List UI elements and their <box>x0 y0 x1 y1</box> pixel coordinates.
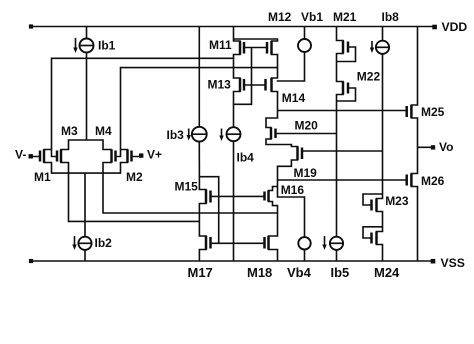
svg-text:M13: M13 <box>208 78 232 92</box>
svg-text:Ib2: Ib2 <box>95 236 113 250</box>
svg-text:M3: M3 <box>61 124 78 138</box>
svg-text:M20: M20 <box>295 119 319 133</box>
svg-text:Ib3: Ib3 <box>167 128 185 142</box>
svg-text:M18: M18 <box>247 265 272 280</box>
svg-text:M17: M17 <box>188 265 213 280</box>
svg-text:Vo: Vo <box>439 140 453 154</box>
svg-text:M23: M23 <box>385 194 409 208</box>
svg-text:M14: M14 <box>282 91 306 105</box>
svg-text:M12: M12 <box>268 10 292 24</box>
svg-text:M16: M16 <box>281 183 305 197</box>
svg-text:M11: M11 <box>209 38 232 52</box>
svg-text:M22: M22 <box>357 70 381 84</box>
svg-text:M1: M1 <box>34 170 51 184</box>
svg-text:V+: V+ <box>147 148 162 162</box>
svg-text:VDD: VDD <box>442 20 468 34</box>
svg-text:M4: M4 <box>95 124 112 138</box>
svg-text:M2: M2 <box>126 170 143 184</box>
svg-text:M25: M25 <box>421 105 445 119</box>
svg-text:M19: M19 <box>294 166 318 180</box>
svg-text:Ib5: Ib5 <box>331 265 350 280</box>
svg-text:M21: M21 <box>333 10 357 24</box>
svg-text:V-: V- <box>15 148 26 162</box>
svg-text:Ib1: Ib1 <box>98 39 116 53</box>
svg-text:Vb1: Vb1 <box>301 10 323 24</box>
svg-text:Vb4: Vb4 <box>287 265 312 280</box>
svg-text:M15: M15 <box>175 179 199 193</box>
svg-text:Ib4: Ib4 <box>237 151 255 165</box>
svg-text:VSS: VSS <box>441 256 465 270</box>
svg-text:Ib8: Ib8 <box>382 10 400 24</box>
svg-text:M24: M24 <box>374 265 400 280</box>
svg-text:M26: M26 <box>421 174 445 188</box>
